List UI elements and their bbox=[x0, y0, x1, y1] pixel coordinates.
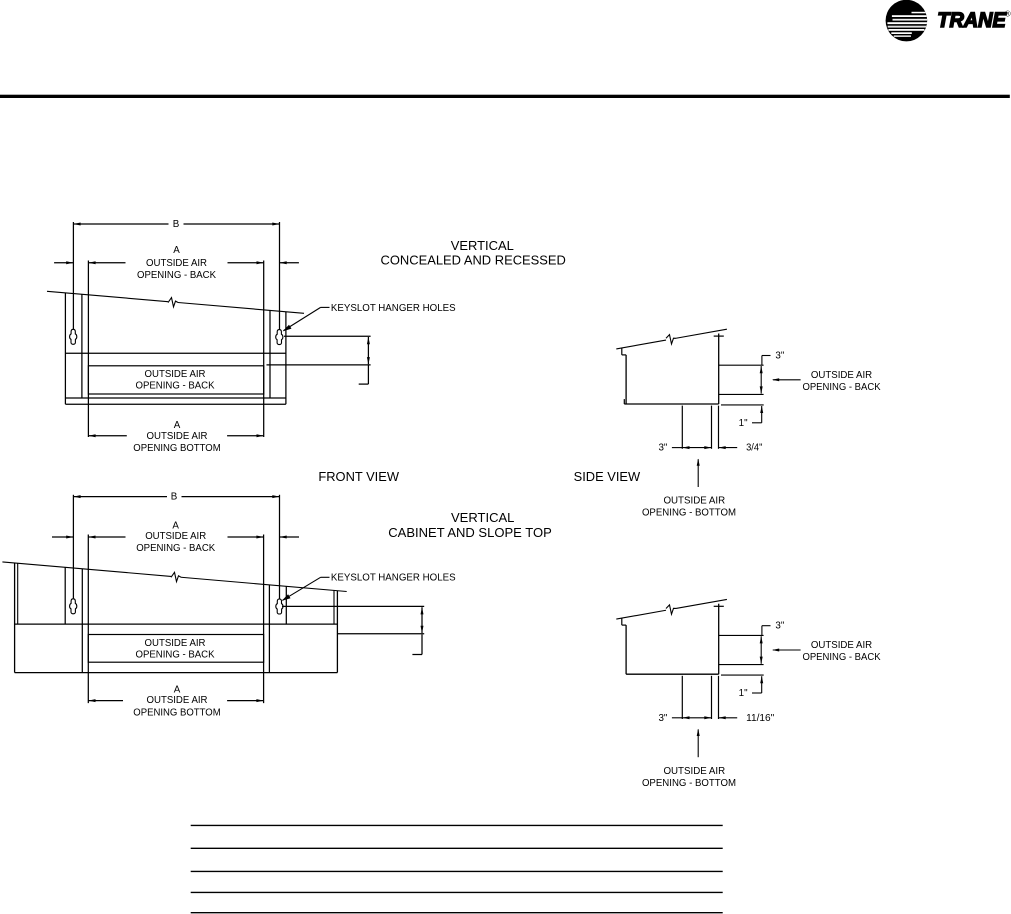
svg-text:1": 1" bbox=[739, 418, 748, 429]
svg-text:3/4": 3/4" bbox=[746, 443, 763, 454]
svg-text:B: B bbox=[173, 219, 180, 230]
svg-text:3": 3" bbox=[775, 621, 784, 632]
svg-text:®: ® bbox=[1005, 10, 1011, 19]
svg-text:KEYSLOT HANGER HOLES: KEYSLOT HANGER HOLES bbox=[331, 303, 456, 314]
svg-text:CONCEALED AND RECESSED: CONCEALED AND RECESSED bbox=[381, 253, 566, 268]
svg-text:A: A bbox=[173, 245, 180, 256]
svg-text:OUTSIDE AIR: OUTSIDE AIR bbox=[147, 695, 208, 706]
svg-text:OUTSIDE AIR: OUTSIDE AIR bbox=[146, 258, 207, 269]
svg-text:3": 3" bbox=[775, 350, 784, 361]
svg-text:CABINET AND SLOPE TOP: CABINET AND SLOPE TOP bbox=[388, 525, 552, 540]
svg-text:OUTSIDE AIR: OUTSIDE AIR bbox=[147, 431, 208, 442]
svg-text:TRANE: TRANE bbox=[937, 8, 1006, 32]
svg-text:OPENING - BACK: OPENING - BACK bbox=[136, 543, 215, 554]
svg-text:OPENING - BACK: OPENING - BACK bbox=[802, 382, 881, 393]
svg-text:VERTICAL: VERTICAL bbox=[451, 510, 514, 525]
svg-text:FRONT VIEW: FRONT VIEW bbox=[318, 469, 399, 484]
svg-text:OPENING - BOTTOM: OPENING - BOTTOM bbox=[642, 778, 736, 789]
svg-text:A: A bbox=[174, 684, 181, 695]
svg-text:OPENING - BACK: OPENING - BACK bbox=[136, 649, 215, 660]
svg-text:3": 3" bbox=[658, 443, 667, 454]
svg-text:B: B bbox=[171, 492, 178, 503]
svg-text:VERTICAL: VERTICAL bbox=[451, 238, 514, 253]
svg-text:OPENING - BOTTOM: OPENING - BOTTOM bbox=[642, 508, 736, 519]
svg-text:OUTSIDE AIR: OUTSIDE AIR bbox=[811, 370, 872, 381]
svg-text:KEYSLOT HANGER HOLES: KEYSLOT HANGER HOLES bbox=[331, 573, 456, 584]
svg-text:A: A bbox=[174, 420, 181, 431]
svg-text:OPENING BOTTOM: OPENING BOTTOM bbox=[133, 443, 220, 454]
svg-text:OUTSIDE AIR: OUTSIDE AIR bbox=[145, 369, 206, 380]
svg-text:OUTSIDE AIR: OUTSIDE AIR bbox=[811, 640, 872, 651]
svg-text:SIDE VIEW: SIDE VIEW bbox=[574, 469, 641, 484]
svg-text:OPENING BOTTOM: OPENING BOTTOM bbox=[133, 707, 220, 718]
svg-text:OPENING - BACK: OPENING - BACK bbox=[136, 381, 215, 392]
svg-text:1": 1" bbox=[739, 688, 748, 699]
svg-text:OUTSIDE AIR: OUTSIDE AIR bbox=[145, 531, 206, 542]
svg-text:A: A bbox=[172, 520, 179, 531]
svg-text:OUTSIDE AIR: OUTSIDE AIR bbox=[663, 766, 725, 777]
svg-text:OUTSIDE AIR: OUTSIDE AIR bbox=[663, 496, 725, 507]
svg-text:OPENING - BACK: OPENING - BACK bbox=[802, 652, 881, 663]
svg-text:3": 3" bbox=[658, 713, 667, 724]
svg-text:OPENING - BACK: OPENING - BACK bbox=[137, 270, 216, 281]
svg-text:OUTSIDE AIR: OUTSIDE AIR bbox=[145, 638, 206, 649]
svg-text:11/16": 11/16" bbox=[746, 713, 775, 724]
